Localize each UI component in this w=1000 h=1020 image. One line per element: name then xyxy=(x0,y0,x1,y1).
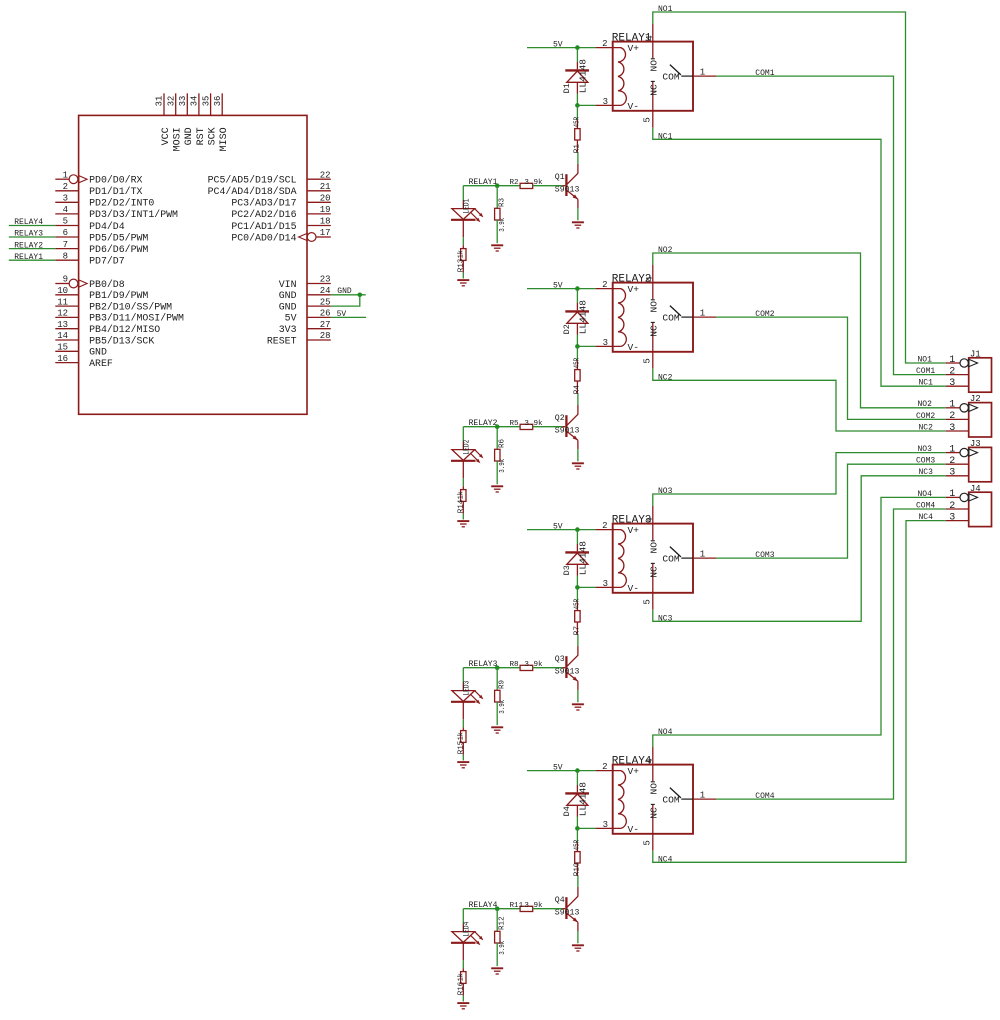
ground R15 xyxy=(457,762,469,768)
junction D2/R4 xyxy=(575,344,580,349)
LED LED2 xyxy=(451,427,483,464)
node COM2 net wire xyxy=(716,310,946,421)
pin 1 J1 xyxy=(946,355,978,367)
wire diode to V- xyxy=(576,576,578,588)
pin 1 PD0/D0/RX xyxy=(55,170,142,185)
node 5V supply wire block 2 xyxy=(527,282,596,291)
pin 26 5V xyxy=(285,309,331,324)
svg-text:3.9k: 3.9k xyxy=(499,699,507,713)
svg-text:COM: COM xyxy=(662,794,680,805)
resistor R9 3.9k pulldown xyxy=(495,668,507,726)
relay RELAY4 coil xyxy=(613,771,627,829)
resistor R15 1k xyxy=(458,702,466,761)
svg-text:45R: 45R xyxy=(574,117,582,128)
svg-text:15: 15 xyxy=(57,343,68,353)
svg-text:1: 1 xyxy=(949,355,955,366)
svg-text:GND: GND xyxy=(279,290,297,301)
relay NC pin xyxy=(642,322,659,368)
svg-text:SCK: SCK xyxy=(208,127,219,145)
svg-text:NC3: NC3 xyxy=(919,468,934,477)
svg-text:COM3: COM3 xyxy=(916,457,935,466)
svg-text:V+: V+ xyxy=(628,525,640,536)
wire relay V- pin stub xyxy=(577,338,612,348)
svg-text:1k: 1k xyxy=(458,732,466,740)
transistor Q2 S9013 xyxy=(555,394,580,461)
svg-text:23: 23 xyxy=(320,275,331,285)
pin 2 J3 xyxy=(946,456,969,467)
svg-text:R4: R4 xyxy=(574,385,582,395)
connector J2 xyxy=(969,394,992,437)
ground R16 xyxy=(457,1003,469,1009)
pin 3 J1 xyxy=(946,378,969,389)
resistor R12 3.9k pulldown xyxy=(495,909,507,967)
svg-text:3.9k: 3.9k xyxy=(499,940,507,954)
resistor R10 45R xyxy=(574,828,582,876)
svg-text:Q1: Q1 xyxy=(555,173,565,182)
svg-text:NO2: NO2 xyxy=(658,246,673,255)
svg-text:RELAY2: RELAY2 xyxy=(14,241,43,250)
pin 23 VIN xyxy=(279,275,331,290)
svg-text:3: 3 xyxy=(949,423,955,434)
svg-text:5: 5 xyxy=(642,840,652,845)
svg-text:18: 18 xyxy=(320,217,331,227)
pin 33 GND xyxy=(178,93,195,145)
svg-text:Q2: Q2 xyxy=(555,414,565,423)
pin 32 MOSI xyxy=(166,93,183,151)
pin 8 PD7/D7 xyxy=(55,251,124,266)
svg-text:9: 9 xyxy=(63,275,68,285)
svg-text:3.9k: 3.9k xyxy=(524,902,543,910)
svg-text:PC4/AD4/D18/SDA: PC4/AD4/D18/SDA xyxy=(208,186,297,197)
ground R12 xyxy=(491,968,503,974)
svg-text:5: 5 xyxy=(642,117,652,122)
pin 18 PC1/AD1/D15 xyxy=(231,217,330,232)
svg-text:V+: V+ xyxy=(628,766,640,777)
svg-text:R3: R3 xyxy=(499,197,507,207)
relay RELAY3 coil xyxy=(613,530,627,588)
svg-text:LED3: LED3 xyxy=(463,680,471,695)
node NO3 net wire xyxy=(653,445,946,506)
svg-text:COM3: COM3 xyxy=(755,551,774,560)
relay RELAY3 box xyxy=(612,515,693,593)
svg-text:27: 27 xyxy=(320,320,331,330)
svg-text:R1: R1 xyxy=(574,144,582,154)
svg-text:6: 6 xyxy=(63,228,68,238)
svg-text:GND: GND xyxy=(279,301,297,312)
relay RELAY2 coil xyxy=(613,289,627,347)
svg-text:LED2: LED2 xyxy=(463,439,471,454)
ground Q2 emitter xyxy=(572,463,584,469)
svg-text:GND: GND xyxy=(337,287,352,296)
svg-text:NO3: NO3 xyxy=(918,445,933,454)
svg-text:R14: R14 xyxy=(458,499,466,513)
resistor R14 1k xyxy=(458,461,466,520)
relay RELAY4 box xyxy=(612,756,693,834)
svg-text:PD1/D1/TX: PD1/D1/TX xyxy=(89,186,142,197)
svg-text:LL4148: LL4148 xyxy=(577,59,588,94)
junction 5V/D2 xyxy=(575,286,580,291)
svg-text:R11: R11 xyxy=(510,902,524,910)
svg-text:NC1: NC1 xyxy=(919,379,934,388)
svg-text:3: 3 xyxy=(63,194,68,204)
svg-text:PD4/D4: PD4/D4 xyxy=(89,221,125,232)
svg-text:RST: RST xyxy=(196,127,207,145)
svg-text:D4: D4 xyxy=(562,806,572,816)
resistor R6 3.9k pulldown xyxy=(495,427,507,485)
relay NO pin xyxy=(645,506,660,554)
pin 6 PD5/D5/PWM xyxy=(55,228,148,243)
pin 14 PB5/D13/SCK xyxy=(55,331,154,346)
svg-text:2: 2 xyxy=(63,182,68,192)
svg-text:COM1: COM1 xyxy=(755,69,774,78)
ground R14 xyxy=(457,521,469,527)
svg-text:V-: V- xyxy=(628,342,640,353)
svg-text:45R: 45R xyxy=(574,599,582,610)
junction RELAY1 xyxy=(495,183,500,188)
wire diode to V- xyxy=(576,817,578,829)
svg-text:PD6/D6/PWM: PD6/D6/PWM xyxy=(89,244,148,255)
resistor R8 3.9k xyxy=(510,661,566,671)
svg-text:PB0/D8: PB0/D8 xyxy=(89,279,125,290)
relay COM switch lever xyxy=(662,65,693,83)
svg-text:NO2: NO2 xyxy=(918,400,933,409)
svg-text:1k: 1k xyxy=(458,250,466,258)
junction 5V/D1 xyxy=(575,45,580,50)
resistor R1 45R xyxy=(574,105,582,153)
svg-text:3.9k: 3.9k xyxy=(499,458,507,472)
svg-text:NO1: NO1 xyxy=(658,5,673,14)
svg-text:12: 12 xyxy=(57,309,68,319)
relay NO pin xyxy=(645,24,660,72)
node RELAY2 net stub at MCU pin 7 xyxy=(9,241,56,250)
svg-text:GND: GND xyxy=(184,127,195,145)
svg-text:VCC: VCC xyxy=(161,127,172,145)
wire diode to V- xyxy=(576,335,578,347)
pin 13 PB4/D12/MISO xyxy=(55,320,160,335)
svg-text:2: 2 xyxy=(602,39,607,49)
svg-text:COM: COM xyxy=(662,312,680,323)
junction RELAY2 xyxy=(495,424,500,429)
svg-text:D3: D3 xyxy=(562,565,572,575)
svg-text:NO: NO xyxy=(649,301,660,313)
svg-text:3: 3 xyxy=(603,338,608,348)
ground Q1 emitter xyxy=(572,222,584,228)
svg-text:R10: R10 xyxy=(574,862,582,876)
svg-text:3: 3 xyxy=(603,820,608,830)
pin 3 J4 xyxy=(946,512,969,523)
svg-text:NC: NC xyxy=(649,566,660,578)
svg-text:D1: D1 xyxy=(562,83,572,93)
svg-text:3: 3 xyxy=(603,97,608,107)
svg-text:R5: R5 xyxy=(510,420,520,428)
svg-text:NC4: NC4 xyxy=(658,855,673,864)
svg-text:22: 22 xyxy=(320,170,331,180)
svg-text:5: 5 xyxy=(63,217,68,227)
svg-text:5: 5 xyxy=(642,358,652,363)
svg-text:R15: R15 xyxy=(458,740,466,754)
pin 22 PC5/AD5/D19/SCL xyxy=(208,170,331,185)
svg-text:NC2: NC2 xyxy=(919,423,934,432)
junction RELAY3 xyxy=(495,665,500,670)
svg-text:LL4148: LL4148 xyxy=(577,300,588,335)
pin 2 J1 xyxy=(946,366,969,377)
node COM1 net wire xyxy=(716,69,946,376)
svg-text:VIN: VIN xyxy=(279,279,297,290)
node NC1 net wire xyxy=(653,128,946,388)
svg-text:V-: V- xyxy=(628,101,640,112)
diode D4 LL4148 xyxy=(562,771,589,817)
junction GND xyxy=(358,293,363,298)
svg-text:NO4: NO4 xyxy=(918,490,933,499)
relay RELAY2 box xyxy=(612,274,693,352)
svg-text:RELAY1: RELAY1 xyxy=(14,253,43,262)
pin 3 J3 xyxy=(946,468,969,479)
wire relay V+ pin stub xyxy=(596,39,613,49)
svg-text:PD5/D5/PWM: PD5/D5/PWM xyxy=(89,232,148,243)
svg-text:COM1: COM1 xyxy=(916,367,935,376)
svg-text:S9013: S9013 xyxy=(555,909,580,918)
relay COM pin stub xyxy=(693,550,716,560)
resistor R2 3.9k xyxy=(510,179,566,189)
pin 1 J2 xyxy=(946,400,978,412)
svg-text:S9013: S9013 xyxy=(555,186,580,195)
svg-text:Q4: Q4 xyxy=(555,896,565,905)
svg-text:R12: R12 xyxy=(499,916,507,930)
svg-text:PC2/AD2/D16: PC2/AD2/D16 xyxy=(231,209,296,220)
relay NO pin xyxy=(645,747,660,795)
svg-text:NC: NC xyxy=(649,807,660,819)
svg-text:1: 1 xyxy=(700,68,705,78)
svg-text:NC1: NC1 xyxy=(658,132,673,141)
svg-text:R16: R16 xyxy=(458,981,466,995)
svg-text:PC1/AD1/D15: PC1/AD1/D15 xyxy=(231,221,296,232)
pin 34 RST xyxy=(190,93,207,145)
svg-text:PB5/D13/SCK: PB5/D13/SCK xyxy=(89,335,154,346)
pin 2 PD1/D1/TX xyxy=(55,182,142,197)
node RELAY3 net stub at MCU pin 6 xyxy=(9,230,56,239)
svg-text:LL4148: LL4148 xyxy=(577,782,588,817)
svg-text:PD3/D3/INT1/PWM: PD3/D3/INT1/PWM xyxy=(89,209,178,220)
svg-text:10: 10 xyxy=(57,286,68,296)
node RELAY4 net wire xyxy=(463,901,520,910)
connector J1 xyxy=(969,349,992,392)
svg-text:GND: GND xyxy=(89,347,107,358)
transistor Q4 S9013 xyxy=(555,876,580,943)
wire relay V- pin stub xyxy=(577,579,612,589)
svg-text:RELAY2: RELAY2 xyxy=(469,419,498,428)
pin 2 J2 xyxy=(946,411,969,422)
svg-text:3: 3 xyxy=(949,512,955,523)
LED LED1 xyxy=(451,186,483,223)
svg-text:J3: J3 xyxy=(970,439,981,449)
svg-text:19: 19 xyxy=(320,205,331,215)
transistor Q3 S9013 xyxy=(555,635,580,702)
svg-text:26: 26 xyxy=(320,309,331,319)
resistor R3 3.9k pulldown xyxy=(495,186,507,244)
svg-text:5V: 5V xyxy=(553,523,563,532)
svg-text:RELAY3: RELAY3 xyxy=(14,230,43,239)
junction 5V/D4 xyxy=(575,768,580,773)
pin 1 J3 xyxy=(946,444,978,456)
relay NC pin xyxy=(642,804,659,850)
diode D2 LL4148 xyxy=(562,289,589,335)
svg-text:COM2: COM2 xyxy=(916,412,935,421)
svg-text:2: 2 xyxy=(602,280,607,290)
ground R6 xyxy=(491,486,503,492)
svg-text:5: 5 xyxy=(642,599,652,604)
svg-text:S9013: S9013 xyxy=(555,668,580,677)
node NO2 net wire xyxy=(653,246,946,409)
junction D3/R7 xyxy=(575,585,580,590)
pin 36 MISO xyxy=(213,93,230,151)
svg-text:RELAY4: RELAY4 xyxy=(469,901,498,910)
svg-text:NO3: NO3 xyxy=(658,487,673,496)
svg-text:J4: J4 xyxy=(970,484,981,494)
svg-text:PC5/AD5/D19/SCL: PC5/AD5/D19/SCL xyxy=(208,175,297,186)
connector J4 xyxy=(969,484,992,527)
svg-text:5V: 5V xyxy=(553,41,563,50)
svg-text:14: 14 xyxy=(57,331,68,341)
svg-text:RELAY4: RELAY4 xyxy=(14,218,43,227)
svg-text:MOSI: MOSI xyxy=(173,127,184,151)
svg-text:1k: 1k xyxy=(458,491,466,499)
svg-text:NC: NC xyxy=(649,84,660,96)
svg-text:2: 2 xyxy=(949,501,955,512)
ground R13 xyxy=(457,280,469,286)
wire relay V+ pin stub xyxy=(596,280,613,290)
svg-text:2: 2 xyxy=(949,456,955,467)
svg-text:16: 16 xyxy=(57,354,68,364)
connector J3 xyxy=(969,439,992,482)
node COM3 net wire xyxy=(716,457,946,560)
svg-text:4: 4 xyxy=(645,35,655,40)
node NC4 net wire xyxy=(653,513,946,864)
resistor R11 3.9k xyxy=(510,902,566,912)
svg-text:PD2/D2/INT0: PD2/D2/INT0 xyxy=(89,198,154,209)
svg-text:45R: 45R xyxy=(574,358,582,369)
pin 35 SCK xyxy=(201,93,218,145)
svg-text:NO: NO xyxy=(649,542,660,554)
svg-text:D2: D2 xyxy=(562,324,572,334)
svg-text:35: 35 xyxy=(201,96,211,107)
svg-text:3.9k: 3.9k xyxy=(524,179,543,187)
svg-text:20: 20 xyxy=(320,194,331,204)
svg-text:PD7/D7: PD7/D7 xyxy=(89,256,125,267)
node 5V supply wire block 4 xyxy=(527,764,596,773)
transistor Q1 S9013 xyxy=(555,153,580,220)
node GND net wire MCU pins 24-25 xyxy=(331,287,366,306)
svg-text:Q3: Q3 xyxy=(555,655,565,664)
svg-text:1: 1 xyxy=(700,309,705,319)
svg-text:45R: 45R xyxy=(574,840,582,851)
svg-text:COM4: COM4 xyxy=(916,501,935,510)
relay COM pin stub xyxy=(693,68,716,78)
relay COM switch lever xyxy=(662,788,693,806)
svg-text:2: 2 xyxy=(602,521,607,531)
pin 19 PC2/AD2/D16 xyxy=(231,205,330,220)
node 5V supply wire block 3 xyxy=(527,523,596,532)
node RELAY2 net wire xyxy=(463,419,520,428)
svg-text:PD0/D0/RX: PD0/D0/RX xyxy=(89,175,142,186)
pin 3 J2 xyxy=(946,423,969,434)
svg-text:R7: R7 xyxy=(574,626,582,635)
wire diode to V- xyxy=(576,94,578,106)
diode D3 LL4148 xyxy=(562,530,589,576)
relay COM pin stub xyxy=(693,791,716,801)
pin 16 AREF xyxy=(55,354,113,369)
pin 5 PD4/D4 xyxy=(55,217,124,232)
svg-text:2: 2 xyxy=(602,762,607,772)
svg-text:NO4: NO4 xyxy=(658,728,673,737)
svg-text:1: 1 xyxy=(700,791,705,801)
svg-text:R9: R9 xyxy=(499,679,507,689)
svg-text:4: 4 xyxy=(63,205,68,215)
pin 24 GND xyxy=(279,286,331,301)
svg-text:4: 4 xyxy=(645,758,655,763)
relay NO pin xyxy=(645,265,660,313)
resistor R16 1k xyxy=(458,943,466,1002)
ground Q4 emitter xyxy=(572,945,584,951)
wire relay V+ pin stub xyxy=(596,762,613,772)
junction D4/R10 xyxy=(575,826,580,831)
svg-text:13: 13 xyxy=(57,320,68,330)
svg-text:8: 8 xyxy=(63,251,68,261)
node 5V supply wire block 1 xyxy=(527,41,596,50)
pin 31 VCC xyxy=(155,93,172,145)
svg-text:J1: J1 xyxy=(970,349,981,359)
pin 1 J4 xyxy=(946,489,978,501)
node 5V net stub MCU pin 26 xyxy=(331,310,366,319)
node COM4 net wire xyxy=(716,501,946,801)
svg-text:R8: R8 xyxy=(510,661,520,669)
svg-text:21: 21 xyxy=(320,182,331,192)
LED LED4 xyxy=(451,909,483,946)
node RELAY1 net wire xyxy=(463,178,520,187)
pin 20 PC3/AD3/D17 xyxy=(231,194,330,209)
node RELAY4 net stub at MCU pin 5 xyxy=(9,218,56,227)
pin 17 PC0/AD0/D14 xyxy=(231,228,330,243)
pin 12 PB3/D11/MOSI/PWM xyxy=(55,309,184,324)
pin 4 PD3/D3/INT1/PWM xyxy=(55,205,178,220)
pin 15 GND xyxy=(55,343,107,358)
svg-text:1: 1 xyxy=(949,400,955,411)
diode D1 LL4148 xyxy=(562,48,589,94)
svg-text:NC2: NC2 xyxy=(658,373,673,382)
svg-text:1: 1 xyxy=(700,550,705,560)
svg-text:RELAY1: RELAY1 xyxy=(469,178,498,187)
svg-text:V+: V+ xyxy=(628,43,640,54)
svg-text:R6: R6 xyxy=(499,438,507,448)
ground R3 xyxy=(491,245,503,251)
svg-text:2: 2 xyxy=(949,366,955,377)
relay RELAY1 box xyxy=(612,33,693,111)
svg-text:RELAY3: RELAY3 xyxy=(469,660,498,669)
wire relay V+ pin stub xyxy=(596,521,613,531)
svg-text:MISO: MISO xyxy=(219,127,230,151)
ground Q3 emitter xyxy=(572,704,584,710)
pin 3 PD2/D2/INT0 xyxy=(55,194,154,209)
svg-text:PB2/D10/SS/PWM: PB2/D10/SS/PWM xyxy=(89,301,172,312)
svg-text:J2: J2 xyxy=(970,394,981,404)
svg-text:5V: 5V xyxy=(285,313,297,324)
svg-text:25: 25 xyxy=(320,297,331,307)
svg-text:1: 1 xyxy=(949,489,955,500)
pin 9 PB0/D8 xyxy=(55,275,124,290)
junction 5V/D3 xyxy=(575,527,580,532)
node RELAY1 net stub at MCU pin 8 xyxy=(9,253,56,262)
svg-text:3: 3 xyxy=(603,579,608,589)
pin 11 PB2/D10/SS/PWM xyxy=(55,297,172,312)
